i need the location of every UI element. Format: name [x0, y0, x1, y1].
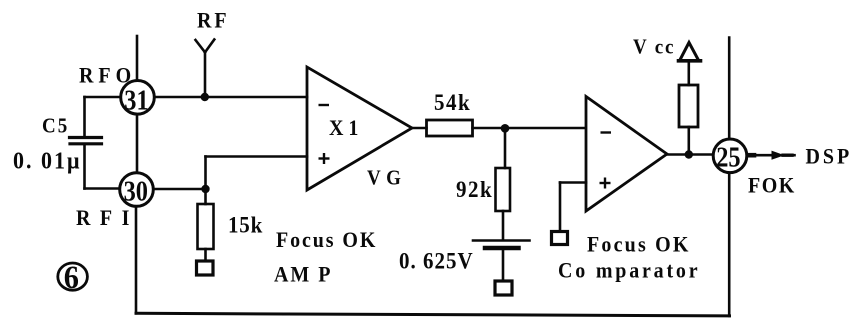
svg-text:FOK: FOK	[748, 173, 796, 198]
svg-text:6: 6	[64, 259, 79, 295]
svg-text:Focus OK: Focus OK	[587, 232, 691, 257]
svg-text:C5: C5	[42, 115, 69, 138]
svg-text:RF: RF	[197, 8, 230, 33]
svg-text:31: 31	[124, 84, 148, 116]
svg-text:RFI: RFI	[76, 205, 139, 230]
svg-text:0. 625V: 0. 625V	[399, 248, 474, 274]
svg-text:X 1: X 1	[329, 115, 358, 140]
svg-text:30: 30	[124, 175, 148, 207]
svg-text:V G: V G	[367, 167, 401, 190]
svg-text:V cc: V cc	[633, 36, 675, 59]
svg-text:0. 01μ: 0. 01μ	[13, 148, 81, 175]
svg-text:92k: 92k	[456, 176, 493, 202]
svg-text:Focus OK: Focus OK	[276, 227, 377, 252]
svg-text:DSP: DSP	[806, 144, 853, 169]
svg-text:25: 25	[716, 141, 740, 173]
svg-text:AM P: AM P	[274, 262, 333, 287]
svg-text:Co mparator: Co mparator	[558, 258, 700, 283]
svg-text:15k: 15k	[228, 212, 263, 238]
svg-text:54k: 54k	[434, 89, 471, 115]
